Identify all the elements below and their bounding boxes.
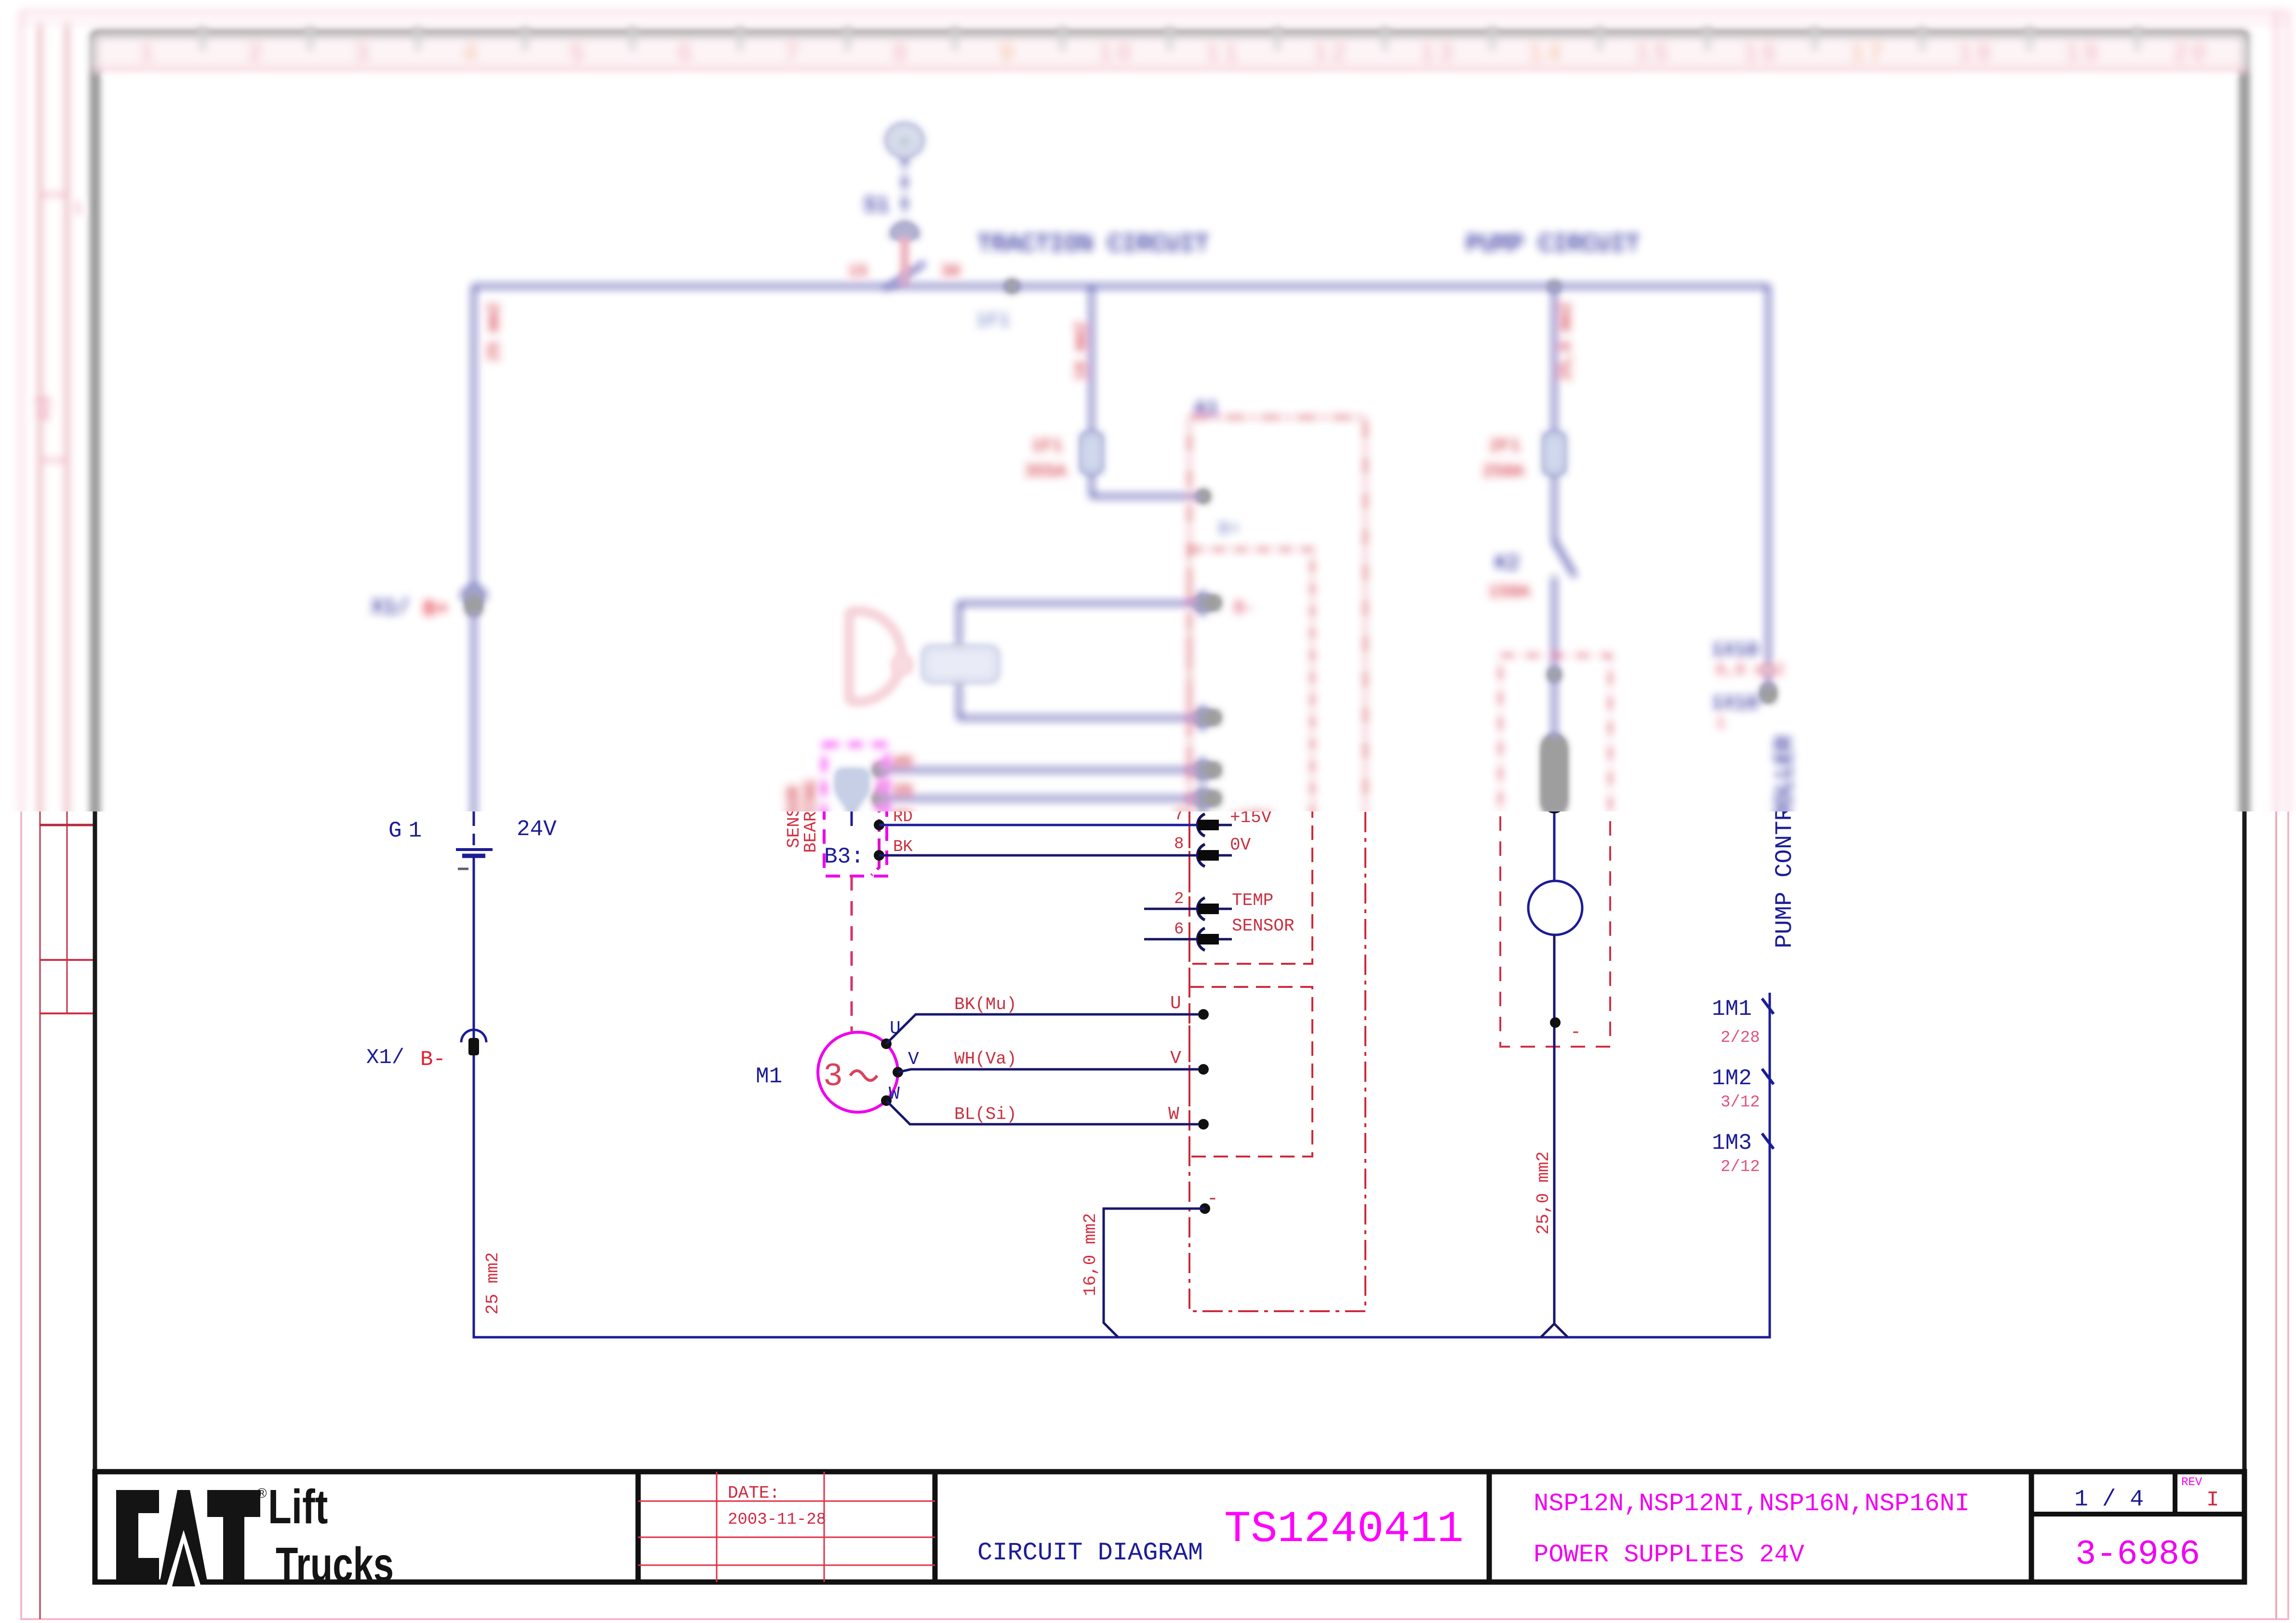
title block red column line 1 [716,1472,718,1582]
ruler tick 7 [845,28,850,50]
ruler band tint [95,38,2244,67]
pin 8 stub [1219,854,1232,857]
controller pin row1949 [1198,934,1219,945]
controller pin row1657 [1198,793,1219,804]
ruler tick 18 [2028,28,2032,50]
title block divider CAT cell [636,1472,641,1582]
CAT logo letter C [116,1490,159,1581]
label Lift [268,1480,328,1534]
controller inner dashed box motor [1189,987,1312,1157]
key switch S1 top circle [888,126,921,155]
key switch S1 core [897,135,912,147]
pump motor M2 circle [1528,881,1582,935]
ruler tick 10 [1168,28,1172,50]
ruler tick 12 [1383,28,1387,50]
left margin divider y2103 [40,1012,93,1014]
ruler tick 14 [1598,28,1602,50]
fuse 1F1 body [1083,435,1100,471]
sensor stub wire [1144,938,1198,941]
pin 7 stub [1219,824,1232,826]
controller pin arc row1252 [1198,592,1205,614]
svg-text:SENSOR: SENSOR [1232,916,1295,936]
svg-text:2/28: 2/28 [1721,1029,1760,1047]
motor terminal V node [893,1067,903,1078]
left margin divider y955 [40,459,67,461]
sensor wire BK [879,854,1198,857]
controller pin arc row1886 [1198,898,1205,920]
sensor lead bus magenta [871,761,879,875]
sensor wire2 [879,798,1198,800]
pump branch wire mid [1553,576,1556,881]
motor U phase wire [886,1014,1198,1044]
svg-text:M1: M1 [756,1064,782,1089]
branch 1M2 tick [1762,1069,1774,1084]
controller pin arc row1598 [1198,759,1205,781]
ruler band bottom pink line [95,67,2244,69]
junction node pump branch [1550,282,1559,291]
connector X1/B- pin [468,1038,479,1055]
ruler tick 19 [2135,28,2139,50]
svg-text:W: W [1168,1104,1179,1125]
motor terminal W node [881,1095,892,1106]
CAT logo letter A [160,1490,207,1581]
rev cell divider vertical [2173,1472,2177,1514]
svg-text:B-: B- [420,1048,446,1072]
branch 1M3 tick [1762,1133,1774,1149]
svg-text:-: - [1207,1188,1218,1210]
pump branch wire upper [1553,286,1556,544]
svg-text:2/12: 2/12 [1721,1158,1760,1176]
node W at controller [1198,1119,1209,1130]
svg-text:6: 6 [1174,920,1184,939]
sensor B3 dashed box [824,745,887,876]
title block divider date cell [933,1472,938,1582]
connector 1X10 end pin [1762,686,1774,701]
sensor B3 body [838,771,866,811]
node V at controller [1198,1064,1209,1075]
controller pin arc row1949 [1198,928,1205,950]
left margin crimson line B [67,23,68,1013]
sensor wire1 [879,769,1198,772]
left margin crimson line A [40,23,41,1619]
sensor B3 stub [851,811,853,826]
ruler tick 5 [630,28,635,50]
controller pin row1490 [1198,712,1219,723]
precharge horn plate [849,611,902,702]
connector X1/B+ arc [462,587,485,599]
page border inner pink line right [2275,12,2277,1619]
title block red column line 2 [824,1472,825,1582]
svg-text:1M3: 1M3 [1712,1131,1752,1156]
connector X1/B+ pin [467,594,480,613]
svg-text:3/12: 3/12 [1721,1093,1760,1112]
controller inner dashed box power [1189,549,1312,964]
CAT logo A white triangle [166,1530,201,1586]
svg-text:TS1240411: TS1240411 [1224,1504,1464,1555]
controller pin arc row1657 [1198,787,1205,810]
svg-text:U: U [1170,993,1181,1014]
contactor K2 blade [1554,541,1575,576]
svg-text:3-6986: 3-6986 [2075,1535,2200,1574]
battery G1 minus tick [458,868,468,870]
svg-text:8: 8 [1174,835,1184,853]
shunt bar pump [1544,736,1565,813]
node sensor wire1 [874,765,884,775]
ruler tick 4 [523,28,527,50]
battery negative wire [474,856,1770,1337]
svg-text:1 / 4: 1 / 4 [2074,1487,2144,1513]
page border inner pink line top [21,22,2288,24]
pump branch wire lower [1553,935,1556,1324]
controller pin row1712 [1198,820,1219,830]
key switch S1 blade [885,263,924,289]
controller pin arc row1712 [1198,814,1205,836]
resistor loop top wire [959,603,1198,649]
ruler tick 11 [1275,28,1280,50]
left margin divider y404 [40,194,67,196]
CAT logo A black triangle [172,1543,195,1586]
svg-text:DATE:: DATE: [728,1483,780,1503]
svg-text:2: 2 [1174,890,1184,908]
svg-text:G1: G1 [388,818,428,843]
svg-text:WH(Va): WH(Va) [954,1049,1017,1069]
svg-text:24V: 24V [517,817,557,842]
motor M1 circle [818,1032,898,1112]
fuse 2F1 body [1546,435,1563,472]
rev cell divider horizontal [2031,1512,2244,1517]
title block red row line 1 [638,1501,935,1502]
key switch S1 dashed stem [903,155,906,219]
svg-text:0V: 0V [1230,835,1251,855]
tilde inside motor [850,1071,877,1080]
temp stub wire [1144,908,1198,910]
ruler tick 13 [1490,28,1495,50]
svg-text:POWER SUPPLIES 24V: POWER SUPPLIES 24V [1534,1541,1804,1569]
controller pin arc row1775 [1198,844,1205,866]
key switch S1 shaft red [903,237,907,282]
svg-text:I: I [2206,1488,2219,1512]
svg-text:BK: BK [893,838,913,856]
svg-text:1M2: 1M2 [1712,1066,1752,1091]
svg-text:-: - [1570,1022,1581,1043]
junction node on bus [1007,281,1017,292]
controller pin row1775 [1198,850,1219,861]
svg-text:NSP12N,NSP12NI,NSP16N,NSP16NI: NSP12N,NSP12NI,NSP16N,NSP16NI [1534,1490,1970,1518]
svg-text:BK(Mu): BK(Mu) [954,995,1017,1014]
B3 to M1 dashed link [851,876,853,1031]
title block red row line 2 [638,1537,935,1538]
title block outer box [95,1472,2244,1582]
battery G1 long plate [456,848,493,851]
node pump branch [1549,669,1560,680]
label Trucks [276,1538,394,1591]
motor W phase wire [886,1101,1198,1124]
controller minus node [1200,1203,1210,1214]
branch 1M1 tick [1762,998,1774,1014]
svg-text:25,0 mm2: 25,0 mm2 [1534,1151,1553,1235]
svg-text:Lift: Lift [268,1480,328,1534]
svg-text:REV: REV [2181,1476,2203,1489]
main bus B+ top [474,286,1768,814]
sensor wire RD [879,824,1198,826]
title block divider TS cell [1487,1472,1492,1582]
ruler tick 15 [1705,28,1709,50]
controller minus wire [1104,1209,1205,1337]
node sensor wireRD [874,820,884,830]
pump wire merge chevron [1541,1324,1568,1337]
controller pin row1252 [1198,598,1219,608]
resistor loop bottom wire [959,679,1198,718]
pin 6 stub [1219,938,1232,941]
ruler tick 3 [415,28,420,50]
traction fuse branch wire [1092,286,1198,496]
ruler tick 1 [200,28,205,50]
node sensor wireBK [874,850,884,861]
key switch S1 key head [891,224,918,237]
resistor R1 body [925,649,996,679]
svg-text:25 mm2: 25 mm2 [483,1252,503,1315]
svg-text:V: V [1170,1048,1181,1069]
ruler tick 2 [308,28,312,50]
node at controller B+ pin [1198,491,1209,502]
CAT logo letter T [207,1490,260,1581]
svg-text:2003-11-28: 2003-11-28 [728,1511,826,1529]
pin 2 stub [1219,908,1232,910]
svg-text:16,0 mm2: 16,0 mm2 [1081,1213,1100,1296]
ruler tick 6 [738,28,742,50]
traction controller outer box dash-dot [1189,417,1365,1311]
ruler tick 17 [1920,28,1924,50]
ruler tick 8 [953,28,957,50]
title block red row line 3 [638,1565,935,1566]
svg-text:CIRCUIT DIAGRAM: CIRCUIT DIAGRAM [977,1539,1203,1567]
svg-text:W: W [889,1084,900,1104]
motor terminal U node [881,1038,892,1049]
svg-text:BL(Si): BL(Si) [954,1104,1017,1124]
controller pin row1886 [1198,904,1219,914]
svg-text:3: 3 [823,1058,843,1095]
controller pin row1598 [1198,765,1219,775]
node sensor wire2 [874,793,884,804]
title block divider NSP cell [2029,1472,2034,1582]
node U at controller [1198,1009,1209,1020]
precharge red square [894,658,910,672]
battery G1 dashed lead [473,814,475,847]
left margin divider y1712 [40,824,93,826]
connector X1/B- arc [461,1030,486,1042]
svg-text:TEMP: TEMP [1232,891,1273,910]
controller pin arc row1490 [1198,707,1205,729]
svg-text:1M1: 1M1 [1712,997,1752,1022]
motor V phase wire [898,1069,1198,1072]
ruler tick 9 [1060,28,1065,50]
left margin divider y1992 [40,959,93,961]
svg-text:®: ® [257,1486,267,1501]
svg-text:V: V [908,1049,919,1070]
node below pump motor [1550,1017,1561,1028]
svg-text:Trucks: Trucks [276,1538,394,1591]
pump dashed enclosure [1500,655,1610,1047]
battery G1 short plate [462,854,485,858]
svg-text:X1/: X1/ [366,1046,404,1070]
svg-text:B3:: B3: [824,844,864,869]
ruler tick 16 [1813,28,1817,50]
